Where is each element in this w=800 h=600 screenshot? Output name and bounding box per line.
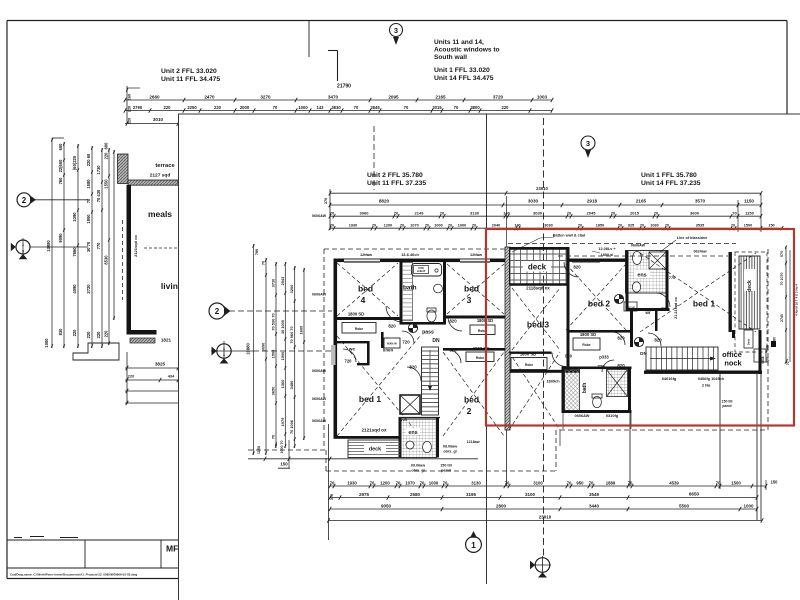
svg-text:23010: 23010 [539, 515, 552, 520]
svg-text:nock: nock [724, 359, 742, 368]
svg-text:3030: 3030 [533, 211, 543, 216]
svg-text:1380: 1380 [773, 337, 777, 345]
svg-text:70: 70 [472, 224, 476, 228]
svg-text:21790: 21790 [337, 84, 351, 90]
svg-text:0624aw: 0624aw [693, 250, 706, 254]
svg-text:220: 220 [104, 152, 109, 160]
svg-text:0606AW: 0606AW [631, 244, 646, 248]
svg-text:2800: 2800 [496, 503, 507, 508]
svg-text:1: 1 [22, 243, 24, 247]
svg-text:2000: 2000 [240, 105, 250, 110]
svg-text:70: 70 [330, 224, 334, 228]
svg-text:370: 370 [324, 198, 328, 204]
svg-text:Line of blass/ave: Line of blass/ave [677, 236, 708, 240]
svg-text:1800 SD: 1800 SD [348, 312, 364, 317]
svg-text:linen: linen [383, 348, 394, 353]
svg-text:3800: 3800 [470, 105, 480, 110]
svg-text:apv: apv [766, 357, 770, 363]
svg-text:3470: 3470 [328, 94, 339, 99]
svg-text:4539: 4539 [669, 480, 679, 485]
svg-text:bed 1: bed 1 [693, 299, 715, 309]
svg-text:12.08Lv +: 12.08Lv + [598, 247, 616, 251]
svg-text:820: 820 [409, 365, 417, 370]
svg-text:9050: 9050 [381, 503, 392, 508]
svg-text:Unit 14 FFL 34.475: Unit 14 FFL 34.475 [434, 75, 494, 82]
svg-text:3710: 3710 [271, 279, 276, 288]
svg-text:70: 70 [330, 480, 335, 485]
svg-text:Unit 2 FFL 33.020: Unit 2 FFL 33.020 [161, 68, 217, 75]
svg-text:1979: 1979 [280, 417, 285, 426]
svg-text:925: 925 [628, 224, 634, 228]
svg-text:3: 3 [22, 250, 24, 254]
svg-text:deck: deck [528, 263, 547, 272]
svg-text:150 tili: 150 tili [440, 464, 451, 468]
svg-text:22(600: 22(600 [58, 159, 63, 172]
svg-text:DN: DN [640, 351, 647, 356]
svg-text:1800 SD: 1800 SD [580, 332, 596, 337]
svg-text:3030: 3030 [528, 199, 539, 204]
svg-text:3270: 3270 [260, 94, 271, 99]
svg-text:140: 140 [503, 211, 510, 216]
svg-text:1500: 1500 [731, 480, 741, 485]
svg-text:70: 70 [354, 105, 359, 110]
svg-text:8820: 8820 [379, 199, 390, 204]
svg-text:1730: 1730 [96, 165, 101, 175]
svg-text:3195: 3195 [466, 492, 477, 497]
svg-text:Unit 11 FFL 37.235: Unit 11 FFL 37.235 [367, 180, 426, 187]
svg-text:7660: 7660 [72, 247, 77, 257]
svg-text:150: 150 [280, 462, 288, 467]
svg-text:obrs. gl: obrs. gl [411, 469, 424, 473]
svg-text:3130: 3130 [470, 211, 480, 216]
svg-text:13-6.46ch: 13-6.46ch [401, 252, 419, 257]
svg-text:1: 1 [471, 540, 476, 550]
svg-text:2: 2 [467, 406, 472, 416]
svg-text:Unit 1 FFL 35.780: Unit 1 FFL 35.780 [641, 172, 697, 179]
svg-text:1000: 1000 [743, 503, 754, 508]
svg-text:terrace: terrace [155, 163, 175, 169]
svg-text:ens: ens [637, 273, 646, 279]
svg-text:70: 70 [394, 211, 399, 216]
svg-text:3480: 3480 [289, 381, 294, 390]
svg-text:08.06aw: 08.06aw [443, 445, 457, 449]
svg-text:9090: 9090 [261, 343, 266, 352]
svg-text:1930: 1930 [349, 224, 357, 228]
svg-text:70: 70 [271, 435, 276, 439]
svg-text:70: 70 [611, 211, 616, 216]
svg-text:70: 70 [396, 480, 401, 485]
svg-text:Unit 1 FFL 33.020: Unit 1 FFL 33.020 [434, 67, 490, 74]
svg-text:2121sqd ox: 2121sqd ox [361, 428, 386, 433]
svg-text:3100: 3100 [525, 492, 536, 497]
svg-text:2165: 2165 [435, 94, 446, 99]
svg-text:0406fg 1045ch: 0406fg 1045ch [698, 376, 725, 381]
svg-text:70 1006: 70 1006 [289, 419, 294, 434]
svg-text:2975: 2975 [359, 492, 370, 497]
svg-text:ens: ens [408, 430, 417, 436]
svg-text:2149: 2149 [415, 211, 425, 216]
svg-text:30 70: 30 70 [86, 241, 91, 252]
svg-text:1580: 1580 [86, 179, 91, 189]
svg-text:780: 780 [255, 249, 259, 255]
svg-text:1930: 1930 [347, 480, 357, 485]
svg-text:770: 770 [96, 242, 101, 250]
svg-text:deck: deck [369, 447, 381, 453]
svg-text:2918: 2918 [587, 199, 598, 204]
svg-text:1850: 1850 [596, 224, 604, 228]
svg-text:220: 220 [96, 331, 101, 339]
svg-text:70: 70 [330, 211, 335, 216]
svg-text:South wall: South wall [434, 54, 467, 61]
svg-text:600: 600 [104, 142, 109, 150]
svg-text:1360: 1360 [280, 380, 285, 389]
svg-text:09.06aw: 09.06aw [411, 464, 425, 468]
svg-text:70: 70 [732, 211, 737, 216]
svg-text:70: 70 [567, 480, 572, 485]
svg-text:2660: 2660 [149, 94, 160, 99]
svg-text:720: 720 [402, 340, 410, 345]
svg-text:3390: 3390 [72, 212, 77, 222]
svg-text:Robe: Robe [582, 343, 590, 347]
svg-text:70: 70 [654, 211, 659, 216]
svg-text:1000 70: 1000 70 [280, 441, 284, 454]
svg-text:70: 70 [448, 224, 452, 228]
svg-text:143: 143 [317, 105, 325, 110]
svg-text:150 tili: 150 tili [722, 400, 733, 404]
svg-text:220: 220 [72, 329, 77, 337]
svg-text:2040: 2040 [492, 224, 500, 228]
svg-text:70: 70 [86, 198, 91, 203]
svg-text:2740: 2740 [780, 314, 784, 322]
svg-text:1080: 1080 [650, 224, 658, 228]
svg-text:Unit 11 FFL 34.475: Unit 11 FFL 34.475 [161, 76, 220, 83]
svg-text:820: 820 [449, 319, 457, 324]
svg-text:70: 70 [443, 480, 448, 485]
svg-text:70: 70 [589, 480, 594, 485]
svg-text:1550: 1550 [104, 179, 109, 189]
svg-text:bed 1: bed 1 [359, 394, 381, 404]
svg-text:bed: bed [358, 284, 373, 294]
svg-text:2165: 2165 [636, 199, 647, 204]
svg-text:720: 720 [345, 359, 353, 364]
svg-text:1000: 1000 [429, 480, 439, 485]
svg-text:MF: MF [166, 544, 178, 554]
svg-text:1200: 1200 [380, 480, 390, 485]
svg-text:Robe: Robe [355, 327, 363, 331]
svg-text:2118sqd ox: 2118sqd ox [526, 286, 550, 291]
svg-text:deck: deck [747, 280, 753, 292]
svg-text:0606AW: 0606AW [312, 397, 327, 401]
svg-text:pamil: pamil [441, 469, 451, 473]
svg-text:3600: 3600 [690, 211, 700, 216]
svg-text:70: 70 [618, 224, 622, 228]
svg-text:2121sqd ox: 2121sqd ox [133, 234, 138, 257]
svg-text:3549: 3549 [589, 492, 600, 497]
svg-text:150: 150 [768, 224, 774, 228]
svg-text:4: 4 [361, 295, 366, 305]
svg-text:MXN W: MXN W [387, 342, 397, 346]
svg-text:370: 370 [330, 494, 334, 500]
svg-text:0310fg: 0310fg [606, 413, 619, 418]
svg-text:p333: p333 [599, 355, 609, 360]
svg-text:3720: 3720 [493, 94, 504, 99]
svg-text:220: 220 [86, 331, 91, 339]
svg-text:1600: 1600 [299, 326, 304, 335]
svg-text:3535: 3535 [696, 224, 704, 228]
svg-text:3720: 3720 [86, 284, 91, 294]
svg-text:1070: 1070 [405, 480, 415, 485]
svg-text:820: 820 [573, 265, 581, 270]
svg-text:140: 140 [514, 224, 520, 228]
svg-text:0606AW: 0606AW [312, 419, 327, 423]
svg-text:220: 220 [502, 105, 510, 110]
svg-text:760: 760 [58, 177, 63, 185]
svg-text:bed: bed [464, 395, 479, 405]
svg-text:2543: 2543 [280, 276, 285, 285]
svg-text:1000: 1000 [458, 224, 466, 228]
svg-text:220: 220 [164, 105, 172, 110]
svg-text:Robe: Robe [476, 356, 484, 360]
svg-text:0608: 0608 [761, 356, 765, 363]
svg-text:DN: DN [432, 338, 440, 344]
svg-text:0606AW: 0606AW [312, 369, 327, 373]
svg-text:Cad/Dwg.name: C:\Work\Peter-Iv: Cad/Dwg.name: C:\Work\Peter-Ivonn\Docume… [10, 573, 137, 577]
svg-text:4090: 4090 [72, 284, 77, 294]
svg-text:1809ch: 1809ch [546, 379, 560, 384]
svg-text:70: 70 [370, 480, 375, 485]
svg-text:3: 3 [394, 26, 398, 35]
svg-text:Acoustic windows to: Acoustic windows to [434, 47, 500, 54]
svg-text:3130: 3130 [471, 480, 481, 485]
svg-text:0606AW: 0606AW [312, 293, 327, 297]
svg-text:3825: 3825 [155, 362, 166, 367]
svg-text:Desk: Desk [747, 338, 751, 345]
svg-text:70: 70 [261, 261, 266, 265]
svg-text:10 1000: 10 1000 [280, 320, 285, 334]
svg-text:2250: 2250 [187, 105, 197, 110]
svg-text:obrs. gl: obrs. gl [443, 450, 456, 454]
svg-text:70: 70 [372, 224, 376, 228]
svg-text:2095: 2095 [388, 94, 399, 99]
svg-text:pass: pass [422, 330, 434, 336]
svg-text:70: 70 [567, 211, 572, 216]
svg-text:meals: meals [148, 209, 172, 219]
svg-text:1821: 1821 [161, 338, 172, 343]
svg-text:2045: 2045 [587, 211, 597, 216]
svg-text:220: 220 [104, 330, 109, 338]
svg-text:3650: 3650 [271, 387, 276, 396]
svg-text:bath: bath [582, 383, 588, 394]
svg-text:1200: 1200 [384, 224, 392, 228]
svg-text:1500: 1500 [280, 352, 285, 361]
svg-text:1000: 1000 [434, 224, 442, 228]
svg-text:2470: 2470 [204, 94, 215, 99]
svg-text:3200: 3200 [289, 285, 294, 294]
svg-text:10880: 10880 [246, 343, 251, 355]
svg-text:820: 820 [449, 348, 457, 353]
svg-text:70 430: 70 430 [96, 189, 101, 202]
svg-text:12tfaw: 12tfaw [470, 252, 483, 257]
svg-text:9090: 9090 [58, 233, 63, 243]
svg-text:1003: 1003 [537, 94, 548, 99]
svg-text:150: 150 [771, 480, 779, 485]
svg-text:830: 830 [58, 328, 63, 336]
svg-text:3: 3 [586, 139, 590, 148]
svg-text:2127 sqd: 2127 sqd [150, 173, 171, 179]
svg-text:1150: 1150 [745, 211, 754, 216]
svg-text:04616fg: 04616fg [662, 376, 677, 381]
svg-text:70: 70 [454, 105, 459, 110]
svg-text:70 530 70: 70 530 70 [271, 313, 276, 330]
svg-text:Units 11 and 14,: Units 11 and 14, [434, 39, 484, 46]
svg-text:shlbd5: shlbd5 [417, 269, 426, 273]
svg-text:2: 2 [22, 196, 27, 205]
svg-text:Unit 2 FFL 35.780: Unit 2 FFL 35.780 [367, 172, 423, 179]
svg-text:1218aw: 1218aw [466, 440, 479, 444]
svg-text:70: 70 [404, 105, 409, 110]
svg-text:bed: bed [464, 284, 479, 294]
svg-text:6650: 6650 [689, 492, 700, 497]
svg-text:70 +: 70 + [786, 359, 790, 365]
svg-text:820: 820 [388, 324, 396, 329]
svg-text:70: 70 [505, 480, 510, 485]
svg-text:3570: 3570 [695, 199, 706, 204]
svg-text:pamil: pamil [722, 404, 731, 408]
svg-text:1800: 1800 [86, 214, 91, 224]
svg-text:70: 70 [731, 224, 735, 228]
svg-text:820: 820 [565, 354, 573, 359]
svg-text:70: 70 [440, 211, 445, 216]
svg-text:70: 70 [640, 224, 644, 228]
svg-text:70: 70 [273, 105, 278, 110]
svg-text:12tfaw: 12tfaw [360, 252, 373, 257]
svg-text:23010: 23010 [536, 186, 548, 191]
svg-text:70: 70 [420, 480, 425, 485]
svg-text:2015: 2015 [432, 105, 442, 110]
svg-text:Unit 14 FFL 37.235: Unit 14 FFL 37.235 [641, 180, 701, 187]
svg-text:2: 2 [215, 307, 220, 316]
svg-text:950: 950 [576, 480, 584, 485]
svg-text:70 960 70: 70 960 70 [289, 326, 294, 343]
svg-text:220: 220 [128, 106, 132, 112]
svg-text:70: 70 [665, 224, 669, 228]
svg-text:220 60: 220 60 [86, 153, 91, 166]
svg-text:1500: 1500 [744, 224, 752, 228]
svg-text:2580: 2580 [410, 492, 421, 497]
svg-text:3830: 3830 [331, 105, 341, 110]
svg-text:Robe: Robe [525, 363, 533, 367]
svg-text:1889: 1889 [606, 480, 616, 485]
svg-text:0606AW: 0606AW [312, 214, 327, 218]
svg-text:10880: 10880 [46, 240, 51, 252]
svg-text:8530: 8530 [104, 255, 109, 265]
svg-text:1150: 1150 [744, 199, 754, 204]
svg-text:3030: 3030 [544, 224, 552, 228]
svg-text:1000: 1000 [44, 338, 49, 348]
svg-text:70: 70 [400, 224, 404, 228]
svg-text:Batten wall & clad: Batten wall & clad [553, 234, 586, 238]
svg-text:220: 220 [214, 105, 222, 110]
svg-text:2845: 2845 [370, 105, 380, 110]
svg-text:220: 220 [128, 374, 135, 379]
svg-text:1000: 1000 [298, 105, 308, 110]
svg-text:70: 70 [425, 224, 429, 228]
svg-text:434: 434 [168, 374, 175, 379]
svg-text:3010: 3010 [153, 117, 164, 122]
svg-text:bedl3: bedl3 [527, 320, 549, 330]
svg-text:2 Na: 2 Na [702, 383, 711, 388]
svg-text:0606AW: 0606AW [575, 413, 590, 418]
svg-text:70: 70 [578, 224, 582, 228]
svg-text:3060: 3060 [360, 211, 370, 216]
svg-text:1070: 1070 [410, 224, 418, 228]
svg-text:2790: 2790 [133, 105, 143, 110]
svg-text:570: 570 [780, 251, 784, 257]
svg-text:70 1070: 70 1070 [780, 273, 784, 286]
svg-text:(60)220: (60)220 [72, 155, 77, 170]
svg-text:160: 160 [128, 94, 132, 100]
svg-text:3440: 3440 [589, 503, 600, 508]
svg-text:5500: 5500 [679, 503, 690, 508]
svg-text:2015: 2015 [630, 211, 640, 216]
svg-text:3100: 3100 [533, 480, 543, 485]
svg-text:600: 600 [58, 143, 63, 151]
